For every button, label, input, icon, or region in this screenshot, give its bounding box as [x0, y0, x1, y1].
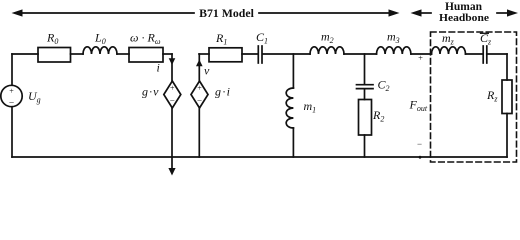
svg-text:Fout: Fout — [409, 98, 428, 114]
svg-text:Rz: Rz — [486, 88, 498, 104]
svg-text:L0: L0 — [94, 31, 106, 47]
svg-text:−: − — [417, 139, 422, 149]
svg-text:C1: C1 — [256, 30, 268, 46]
svg-text:R0: R0 — [46, 31, 58, 47]
svg-text:B71 Model: B71 Model — [199, 6, 254, 20]
svg-text:m2: m2 — [321, 30, 334, 46]
svg-text:g·v: g·v — [142, 85, 159, 99]
svg-text:ω · Rω: ω · Rω — [130, 31, 161, 47]
svg-text:R1: R1 — [215, 31, 227, 47]
svg-text:+: + — [418, 53, 423, 63]
svg-text:Headbone: Headbone — [439, 12, 489, 24]
svg-text:mz: mz — [442, 31, 455, 47]
svg-text:+: + — [197, 84, 202, 93]
svg-text:g·i: g·i — [215, 85, 230, 99]
svg-text:m1: m1 — [304, 99, 317, 115]
svg-text:i: i — [157, 61, 160, 75]
svg-text:+: + — [170, 84, 175, 93]
svg-text:−: − — [9, 99, 14, 109]
svg-text:+: + — [9, 87, 14, 96]
svg-text:v: v — [204, 64, 210, 78]
svg-text:C2: C2 — [378, 78, 390, 94]
svg-text:−: − — [170, 96, 175, 106]
svg-text:m3: m3 — [387, 30, 400, 46]
svg-text:−: − — [197, 96, 202, 106]
svg-text:R2: R2 — [372, 108, 384, 124]
svg-text:Ug: Ug — [28, 89, 41, 105]
